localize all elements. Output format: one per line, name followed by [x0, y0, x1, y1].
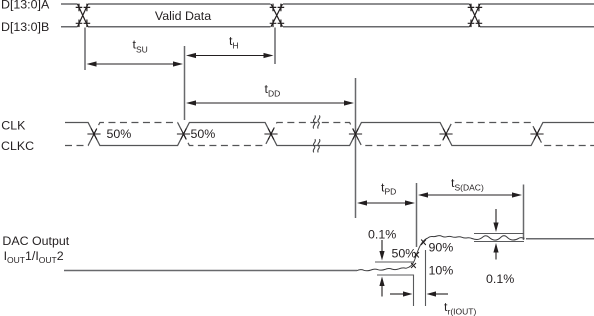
CLK waveform (solid): [65, 123, 594, 146]
svg-text:SU: SU: [136, 45, 148, 55]
90% tick: [421, 240, 426, 246]
DAC output low-level noise squiggle: [357, 268, 406, 271]
svg-text:90%: 90%: [429, 241, 454, 255]
DAC output rising edge: [406, 238, 428, 268]
guide line at CLK edge (tSU/tH boundary): [184, 46, 186, 120]
0.1% up arrow (left): [379, 277, 384, 297]
clock crossing mark 1: [87, 129, 100, 140]
clock crossing mark 6: [530, 129, 543, 140]
svg-text:50%: 50%: [107, 127, 132, 141]
dimension tH: [186, 34, 274, 58]
0.1% band lower line (low level) + tr left guide: [377, 275, 414, 306]
clock crossing mark 3: [264, 129, 277, 140]
tr left arrow (pointing right): [390, 291, 413, 296]
50% tick: [414, 252, 419, 258]
dimension tDD: [186, 82, 354, 106]
guide line at DAC settled point: [523, 185, 525, 241]
svg-text:D[13:0]A: D[13:0]A: [1, 0, 50, 12]
clock crossing mark 2: [177, 129, 190, 140]
svg-text:DAC Output: DAC Output: [2, 234, 69, 248]
tr right arrow (pointing left): [427, 291, 449, 296]
0.1% band upper line (high level): [474, 233, 524, 235]
DAC output low level line: [64, 270, 357, 272]
svg-text:r(IOUT): r(IOUT): [448, 307, 477, 316]
svg-text:D[13:0]B: D[13:0]B: [1, 20, 49, 34]
0.1% down arrow (left): [379, 240, 384, 261]
tr right guide line: [425, 250, 427, 306]
svg-text:0.1%: 0.1%: [486, 272, 514, 286]
CLKC waveform (dashed): [65, 123, 594, 146]
svg-text:CLK: CLK: [1, 119, 26, 133]
svg-text:50%: 50%: [191, 127, 216, 141]
DAC output high-level noise squiggle: [428, 236, 525, 240]
svg-text:PD: PD: [385, 187, 397, 197]
guide line at DAC 50% point: [416, 183, 418, 247]
10% tick: [411, 263, 416, 268]
guide line below X1: [84, 28, 86, 71]
0.1% band upper line (low level): [375, 261, 414, 263]
DAC output settled line: [526, 238, 594, 240]
data bus bottom rail: [61, 26, 594, 28]
break mark on CLK bottom line: [313, 139, 320, 152]
svg-text:50%: 50%: [392, 247, 417, 261]
svg-text:0.1%: 0.1%: [368, 228, 396, 242]
svg-text:Valid Data: Valid Data: [155, 9, 211, 23]
data bus top rail: [61, 3, 594, 5]
clock crossing mark 5: [439, 129, 452, 140]
bus transition X1: [76, 4, 91, 28]
svg-text:DD: DD: [268, 89, 280, 99]
svg-text:10%: 10%: [429, 264, 454, 278]
dimension tS(DAC): [418, 176, 522, 198]
0.1% band lower line (high level): [474, 241, 524, 243]
clock crossing mark 4: [349, 129, 362, 140]
0.1% down arrow (right): [493, 209, 498, 232]
guide line at CLK edge for tDD/tPD: [355, 78, 357, 218]
0.1% up arrow (right): [493, 243, 498, 260]
break mark on CLKC top line: [313, 115, 320, 128]
dimension tSU: [87, 38, 184, 67]
guide line below X2: [274, 28, 276, 65]
svg-text:H: H: [233, 41, 239, 51]
svg-text:S(DAC): S(DAC): [455, 183, 484, 193]
bus transition X2: [270, 4, 285, 28]
dimension tPD: [357, 181, 415, 206]
svg-text:CLKC: CLKC: [1, 139, 34, 153]
bus transition X3: [468, 4, 483, 28]
